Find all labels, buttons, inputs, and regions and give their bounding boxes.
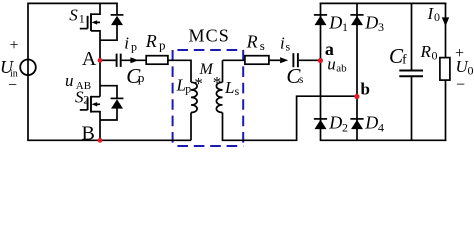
svg-text:p: p — [131, 40, 137, 54]
svg-text:D: D — [328, 113, 342, 133]
svg-text:u: u — [327, 55, 336, 74]
svg-text:s: s — [260, 38, 265, 53]
svg-text:R: R — [145, 31, 157, 51]
svg-text:1: 1 — [342, 20, 348, 34]
svg-text:A: A — [82, 48, 97, 70]
svg-text:1: 1 — [79, 11, 85, 25]
svg-text:p: p — [138, 70, 145, 85]
svg-text:s: s — [286, 40, 291, 54]
svg-text:p: p — [159, 37, 166, 52]
svg-text:D: D — [328, 12, 342, 32]
svg-text:3: 3 — [378, 20, 384, 34]
svg-text:ab: ab — [336, 63, 347, 75]
svg-text:B: B — [82, 122, 95, 144]
svg-text:b: b — [361, 80, 370, 99]
svg-text:i: i — [124, 34, 129, 53]
svg-text:R: R — [420, 42, 432, 61]
svg-text:−: − — [8, 77, 17, 94]
svg-text:*: * — [213, 73, 222, 92]
svg-text:D: D — [364, 113, 378, 133]
svg-text:i: i — [280, 34, 285, 53]
svg-text:s: s — [235, 84, 240, 98]
svg-text:p: p — [185, 82, 191, 96]
svg-text:AB: AB — [76, 80, 91, 92]
svg-text:u: u — [65, 71, 74, 90]
svg-text:in: in — [10, 69, 18, 80]
svg-text:s: s — [299, 74, 304, 86]
svg-text:R: R — [246, 32, 258, 52]
svg-text:0: 0 — [468, 64, 474, 78]
svg-text:−: − — [456, 76, 465, 93]
svg-text:f: f — [402, 53, 407, 68]
svg-text:S: S — [69, 6, 78, 25]
svg-text:MCS: MCS — [189, 25, 230, 45]
svg-text:L: L — [224, 78, 234, 97]
svg-text:4: 4 — [378, 121, 384, 135]
svg-text:2: 2 — [83, 93, 89, 107]
svg-text:+: + — [10, 37, 19, 54]
svg-text:0: 0 — [434, 10, 440, 24]
svg-text:D: D — [364, 12, 378, 32]
svg-text:0: 0 — [432, 49, 438, 63]
svg-text:2: 2 — [342, 121, 348, 135]
svg-text:*: * — [194, 74, 203, 93]
